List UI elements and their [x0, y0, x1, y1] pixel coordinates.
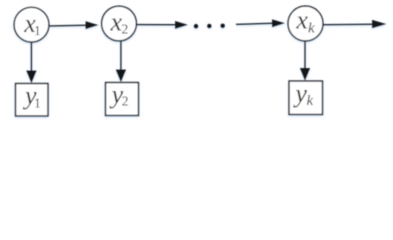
node y2 (observation box)	[106, 80, 139, 116]
node y1 (observation box)	[16, 81, 49, 116]
svg-text:1: 1	[34, 23, 41, 38]
node x2 (state circle)	[102, 6, 137, 41]
wire arrow ellipsis to xk	[236, 19, 285, 27]
svg-text:1: 1	[34, 95, 41, 110]
wire arrow x1 to x2	[49, 21, 98, 29]
svg-text:2: 2	[122, 93, 129, 108]
wire arrow xk down to yk	[300, 41, 310, 81]
svg-text:x: x	[295, 6, 308, 35]
node xk (state circle)	[288, 6, 323, 41]
svg-text:k: k	[308, 21, 315, 37]
svg-text:k: k	[307, 93, 314, 109]
ellipsis dot 1	[194, 24, 199, 29]
wire arrow x2 down to y2	[116, 41, 126, 82]
wire arrow x1 down to y1	[26, 42, 36, 83]
node yk (observation box)	[289, 79, 323, 115]
wire arrow xk to right (output)	[323, 20, 387, 28]
node x1 (state circle)	[14, 7, 49, 42]
svg-text:2: 2	[122, 22, 129, 37]
ellipsis dot 2	[207, 24, 212, 29]
svg-text:y: y	[292, 79, 307, 108]
ellipsis dot 3	[220, 24, 225, 29]
wire arrow x2 to ellipsis	[137, 21, 188, 29]
